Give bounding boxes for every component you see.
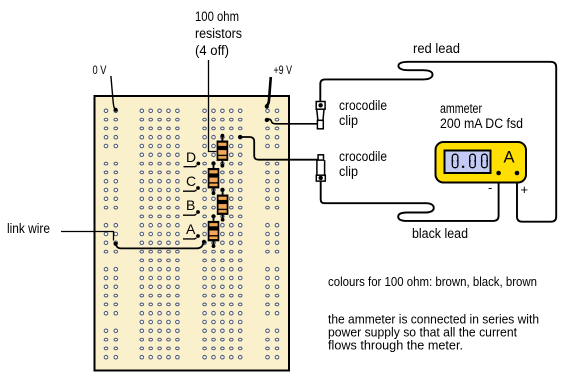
svg-text:flows through the meter.: flows through the meter. [328, 338, 463, 353]
svg-text:ammeter: ammeter [440, 101, 482, 116]
wire 0V [111, 76, 115, 109]
pointer line A [183, 237, 197, 240]
pointer line D [184, 166, 197, 167]
svg-text:crocodile: crocodile [339, 98, 387, 113]
pointer line C [183, 190, 197, 191]
resistor A [208, 214, 220, 248]
svg-text:clip: clip [339, 113, 358, 128]
svg-text:(4 off): (4 off) [195, 43, 229, 58]
svg-text:black lead: black lead [412, 226, 468, 241]
resistor D [217, 134, 229, 168]
wire +9V [266, 77, 271, 106]
svg-text:red lead: red lead [413, 41, 460, 56]
link wire [116, 243, 204, 249]
svg-text:0 V: 0 V [93, 65, 107, 77]
crocodile clip 1 [316, 102, 325, 129]
resistor C [208, 161, 220, 195]
svg-text:B: B [186, 197, 195, 213]
ammeter U1 [436, 142, 527, 183]
svg-text:A: A [186, 221, 196, 237]
svg-text:C: C [186, 173, 196, 189]
svg-text:100 ohm: 100 ohm [195, 9, 239, 24]
svg-text:clip: clip [339, 164, 358, 179]
svg-text:200 mA DC fsd: 200 mA DC fsd [440, 116, 523, 131]
red lead wire [320, 62, 556, 222]
ammeter LCD display [445, 151, 491, 174]
svg-text:resistors: resistors [195, 26, 242, 41]
wire board to crocodile clip 1 [267, 119, 317, 124]
svg-text:D: D [186, 149, 196, 165]
svg-text:-: - [488, 180, 492, 195]
svg-text:A: A [504, 149, 515, 167]
resistor B [217, 188, 229, 222]
svg-text:colours for 100 ohm: brown, bl: colours for 100 ohm: brown, black, brown [328, 274, 537, 289]
svg-text:+9 V: +9 V [274, 63, 293, 77]
svg-text:+: + [521, 182, 529, 197]
pointer line resistors [209, 60, 217, 152]
breadboard [95, 96, 290, 371]
breadboard holes [104, 109, 279, 359]
wire board to crocodile clip 2 [240, 137, 318, 160]
ammeter terminal - [496, 171, 501, 176]
svg-text:crocodile: crocodile [339, 149, 387, 164]
pointer line B [183, 214, 197, 215]
ammeter terminal + [515, 171, 520, 176]
pointer line for link wire [61, 232, 114, 241]
svg-text:link wire: link wire [7, 221, 50, 236]
LCD reading 0.00 [452, 154, 458, 168]
crocodile clip 2 [316, 155, 325, 181]
black lead wire [321, 173, 499, 221]
